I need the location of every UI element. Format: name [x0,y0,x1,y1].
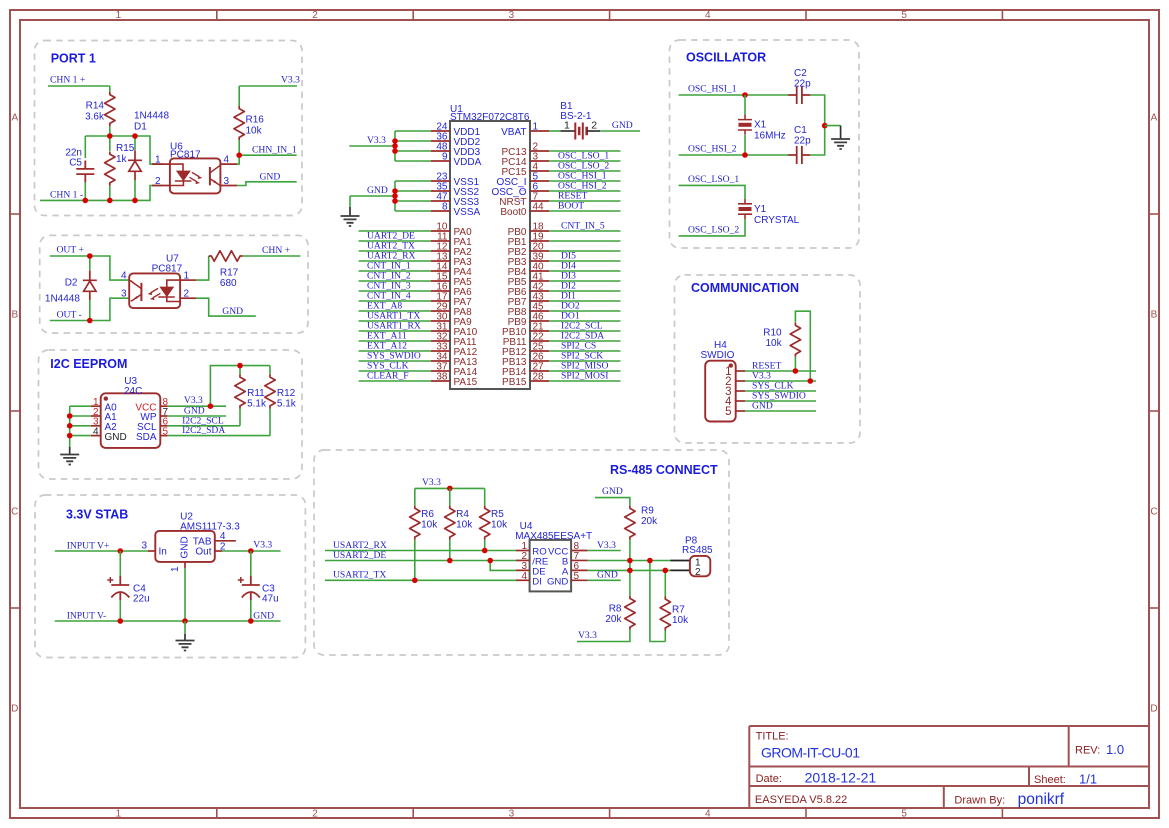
junction [248,548,254,554]
wire PB11 [549,340,621,342]
wire VDD1 [395,130,431,132]
wire C4 top [119,551,121,576]
wire PA10 [359,330,431,332]
svg-text:D: D [11,704,18,715]
svg-text:VSSA: VSSA [454,207,481,218]
wire right row 151 [549,150,621,152]
pin stub U6 pin2 [152,185,170,187]
svg-text:5.1k: 5.1k [247,398,267,409]
svg-text:EASYEDA V5.8.22: EASYEDA V5.8.22 [755,794,847,806]
pin stub U3.4 [91,435,101,437]
wire GND drop [349,196,351,207]
wire PA0 [359,230,431,232]
wire OUT- [50,298,129,320]
junction [67,413,73,419]
pin stub U1.19 [530,240,549,242]
svg-text:CHN_IN_1: CHN_IN_1 [252,144,297,155]
junction [107,198,113,204]
wire PA9 [359,320,431,322]
pin stub U1.12 [431,250,450,252]
junction [67,433,73,439]
svg-text:R9: R9 [641,506,654,517]
wire PB13 [549,360,621,362]
pin stub U1.38 [431,380,450,382]
svg-text:OUT -: OUT - [57,310,82,321]
pin stub P8.1 [670,560,690,562]
junction [627,568,633,574]
svg-text:OSC_LSO_1: OSC_LSO_1 [688,174,739,185]
svg-text:2: 2 [312,10,318,21]
resistor R7 [660,597,670,631]
svg-text:3: 3 [141,541,147,552]
pin stub U1.18 [530,230,549,232]
junction [87,253,93,259]
battery B1 BS-2-1 [561,123,601,140]
wire OSC_LSO_2 [679,219,745,236]
junction [67,423,73,429]
pin stub U1.5 [530,180,549,182]
wire D1 bottom [134,180,136,200]
svg-text:5: 5 [901,808,907,819]
pin stub U3.2 [91,415,101,417]
gnd stem I2C [69,447,71,454]
junction [87,318,93,324]
svg-text:OSC_HSI_1: OSC_HSI_1 [688,84,737,95]
pin stub U1.25 [530,350,549,352]
pin stub U4.2 [516,559,530,561]
pin stub U4.1 [516,550,530,552]
svg-text:OUT +: OUT + [57,245,84,256]
svg-text:VBAT: VBAT [501,127,526,138]
svg-text:OSCILLATOR: OSCILLATOR [686,51,766,65]
wire PB5 [549,280,621,282]
wire U3 gnd bus [69,406,71,447]
wire D1 top [134,136,136,150]
junction [392,193,398,199]
pin stub H4.5 [736,410,745,412]
junction [107,133,113,139]
junction [236,152,242,158]
wire right row 181 [549,180,621,182]
pin stub U1.37 [431,370,450,372]
wire PB10 [549,330,621,332]
svg-text:X1: X1 [754,120,767,131]
svg-text:47u: 47u [262,594,279,605]
pin stub U4.6 [571,569,588,571]
pin stub U1.24 [431,130,450,132]
svg-text:R16: R16 [246,115,265,126]
svg-text:R17: R17 [220,268,239,279]
svg-text:R11: R11 [247,388,265,399]
svg-text:R8: R8 [609,604,622,615]
gnd stem stab2 [184,634,186,640]
pin stub H4.1 [736,370,745,372]
wire PA8 [359,310,431,312]
pin stub U1.36 [431,140,450,142]
svg-text:_: _ [518,191,525,202]
wire PB14 [549,370,621,372]
wire U3 pin3 [70,425,91,427]
svg-text:INPUT V-: INPUT V- [67,610,107,621]
svg-text:CHN 1 -: CHN 1 - [50,190,83,201]
svg-text:BOOT: BOOT [558,200,584,211]
IC U3 24C [101,393,161,448]
pin stub U7 pin1 [180,279,196,281]
pin stub U1.1 [530,130,549,132]
wire R5 top [484,488,486,505]
svg-text:ponikrf: ponikrf [1018,791,1065,808]
wire C5 bottom [84,182,86,200]
wire C2 right [810,95,825,126]
junction [392,188,398,194]
wire PA6 [359,290,431,292]
svg-text:1N4448: 1N4448 [134,111,169,122]
svg-text:10k: 10k [246,126,263,137]
pin stub U1.44 [530,210,549,212]
svg-text:V3.3: V3.3 [597,540,616,551]
wire C5 top [84,136,86,158]
svg-text:10k: 10k [765,338,782,349]
wire U3 pin1 [70,405,91,407]
pin stub U1.2 [530,150,549,152]
junction [742,152,748,158]
wire X1 top [744,95,746,115]
pin stub U1.43 [530,300,549,302]
svg-text:20k: 20k [605,614,622,625]
pin stub U1.46 [530,320,549,322]
svg-text:GND: GND [180,536,191,558]
wire R16 bottom [238,140,240,155]
wire U2 gnd [184,568,186,621]
wire H4 row 4 [745,400,816,402]
pin stub U1.13 [431,260,450,262]
svg-text:GND: GND [253,610,274,621]
wire I2C2_SDA U3 [168,435,270,437]
resistor R5 [480,506,490,540]
svg-text:22p: 22p [794,79,811,90]
svg-text:A: A [11,113,18,124]
pin stub U1.14 [431,270,450,272]
svg-text:4: 4 [705,10,711,21]
capacitor C5 [76,161,94,183]
svg-text:SPI2_MOSI: SPI2_MOSI [561,370,608,381]
svg-text:C: C [11,507,18,518]
svg-text:V3.3: V3.3 [184,395,203,406]
junction [793,368,799,374]
junction [83,198,89,204]
svg-text:3: 3 [509,808,515,819]
wire right row 161 [549,160,621,162]
wire PB3 [549,260,621,262]
svg-text:PORT 1: PORT 1 [51,52,96,66]
svg-text:I2C EEPROM: I2C EEPROM [50,357,127,371]
ground stab [176,641,195,651]
junction [482,548,488,554]
svg-text:B: B [11,310,18,321]
svg-text:5: 5 [725,406,731,418]
wire R12 bottom [269,409,271,436]
wire GND U3 [168,415,226,417]
junction [647,558,653,564]
svg-text:1/1: 1/1 [1079,772,1097,787]
pin stub U1.33 [431,350,450,352]
section box COMMUNICATION [675,275,861,443]
pin stub U3.3 [91,425,101,427]
wire VSS3 [395,200,431,202]
pin stub P8.2 [670,569,690,571]
wire R6 top [414,488,416,505]
wire USART2_RX [325,550,516,552]
wire H4 row 5 [745,410,816,412]
pin stub U1.39 [530,260,549,262]
section box PORT 1 [35,41,303,216]
wire H4 row 3 [745,390,816,392]
junction [412,578,418,584]
junction [132,198,138,204]
diode D1 [128,150,142,180]
wire PA11 [359,340,431,342]
svg-text:Date:: Date: [756,773,782,785]
svg-text:PC817: PC817 [170,149,201,160]
svg-text:1N4448: 1N4448 [45,294,80,305]
svg-text:CNT_IN_5: CNT_IN_5 [561,220,605,231]
wire D2 bottom [89,300,91,321]
wire PB8 [549,310,621,312]
wire R12 top [269,366,271,375]
pin stub U1.26 [530,360,549,362]
wire rs485 pullup rail [415,487,485,489]
junction [742,92,748,98]
pin stub U1.45 [530,310,549,312]
wire right row 201 [549,200,621,202]
section box I2C EEPROM [39,350,303,479]
wire C4 bottom [119,600,121,621]
wire CHN_IN_1 [237,155,297,164]
wire R9 top [595,498,630,506]
pin stub U3.5 [160,435,167,437]
svg-text:R15: R15 [116,143,135,154]
svg-text:SWDIO: SWDIO [701,350,735,361]
svg-text:16MHz: 16MHz [754,131,786,142]
svg-text:GND: GND [260,171,281,182]
junction [808,378,814,384]
svg-text:A: A [1151,113,1158,124]
junction [132,133,138,139]
svg-text:GND: GND [602,486,623,497]
wire USART2_TX [325,579,516,581]
svg-text:1k: 1k [116,154,128,165]
svg-text:20k: 20k [641,516,658,527]
svg-text:GROM-IT-CU-01: GROM-IT-CU-01 [761,745,860,761]
svg-text:I2C2_SDA: I2C2_SDA [182,425,225,436]
wire gnd stem stab [184,621,186,634]
pin stub U1.3 [530,160,549,162]
svg-text:RS485: RS485 [682,545,713,556]
svg-text:PC817: PC817 [152,264,183,275]
svg-text:GND: GND [367,185,388,196]
ground mcu [341,216,360,226]
pin stub U2.3 [148,550,155,552]
wire VDDA [395,160,431,162]
wire PB9 [549,320,621,322]
svg-text:SDA: SDA [136,432,157,443]
wire R6 bottom [414,540,416,581]
wire CHN1- bottom [40,186,163,201]
svg-text:C2: C2 [794,68,807,79]
pin stub U1.23 [431,180,450,182]
svg-text:2018-12-21: 2018-12-21 [805,770,877,786]
pin stub U1.16 [431,290,450,292]
wire PB1 [549,240,621,242]
pin stub U1.30 [431,320,450,322]
wire R11 top [239,366,241,375]
crystal Y1 [738,199,752,219]
svg-text:INPUT V+: INPUT V+ [67,540,110,551]
wire OSC_HSI_1 [679,94,789,96]
wire R7 bottom [664,631,666,642]
svg-text:V3.3: V3.3 [253,540,272,551]
pin stub U4.4 [516,579,530,581]
wire PB15 [549,380,621,382]
wire U4 VCC [588,550,621,552]
svg-text:OSC_HSI_2: OSC_HSI_2 [688,144,737,155]
wire right row 191 [549,190,621,192]
title block [749,726,1149,808]
svg-text:R14: R14 [86,101,105,112]
svg-text:10k: 10k [672,615,689,626]
resistor R6 [410,506,420,540]
wire R14 bottom [109,126,111,136]
pin stub U1.22 [530,340,549,342]
pin stub U3.7 [160,415,167,417]
junction [248,618,254,624]
wire U3 pin2 [70,415,91,417]
resistor R17 [209,251,243,261]
wire D2 top [89,256,91,270]
svg-text:2: 2 [312,808,318,819]
svg-text:R4: R4 [456,509,469,520]
wire PB7 [549,300,621,302]
wire PA4 [359,270,431,272]
svg-text:3: 3 [509,10,515,21]
resistor R4 [445,506,455,540]
junction [118,618,124,624]
wire CHN1+ top [48,85,110,87]
svg-text:4: 4 [705,808,711,819]
pin stub U1.48 [431,150,450,152]
wire GND port1 [237,182,297,186]
diode D2 [83,270,97,300]
wire R4 bottom [449,540,451,561]
svg-text:DI: DI [532,576,542,587]
svg-text:R7: R7 [672,604,685,615]
optocoupler U7 PC817 [129,273,180,308]
pin stub U1.9 [431,160,450,162]
ground I2C [60,455,79,465]
wire I2C2_SCL U3 [168,425,240,427]
pin stub U1.31 [431,330,450,332]
pin stub U1.4 [530,170,549,172]
wire C3 top [250,551,252,576]
capacitor C3 [238,576,260,600]
junction [487,558,493,564]
wire VSS2 [395,190,431,192]
svg-text:USART2_DE: USART2_DE [333,550,386,561]
pin stub H4.2 [736,380,745,382]
svg-text:22u: 22u [133,594,150,605]
wire CHN+ [243,255,301,257]
IC U4 MAX485EESA+T [530,540,572,592]
svg-text:C1: C1 [794,125,807,136]
svg-text:R10: R10 [763,327,782,338]
crystal X1 16MHz [738,115,752,135]
wire INPUT V- [55,620,281,622]
wire R14 top lead [109,86,111,92]
wire V3.3 port1 [239,85,297,87]
svg-text:USART2_TX: USART2_TX [333,570,386,581]
junction [237,363,243,369]
wire OUT+ [50,256,129,280]
junction [392,148,398,154]
pin stub U1.21 [530,330,549,332]
svg-text:5: 5 [901,10,907,21]
wire pullup rail [210,366,270,407]
svg-text:PA15: PA15 [454,377,478,388]
wire VSS1 [395,180,431,182]
svg-text:10k: 10k [491,519,508,530]
pin stub U1.20 [530,250,549,252]
pin stub U6 pin4 [220,163,237,165]
svg-text:1: 1 [564,120,570,132]
svg-text:GND: GND [105,432,127,443]
capacitor C1 [788,146,810,164]
wire U4 GND [588,579,621,581]
svg-text:1: 1 [155,155,161,166]
junction [822,123,828,129]
MCU U1 STM32F072C8T6 [450,121,530,389]
wire GND feed [350,195,395,197]
wire R8 bottom [577,630,630,642]
wire OSC_HSI_2 [679,154,789,156]
svg-text:STM32F072C8T6: STM32F072C8T6 [450,112,530,123]
svg-text:5.1k: 5.1k [277,398,297,409]
svg-text:C: C [1150,507,1157,518]
pin stub U6 pin3 [220,185,237,187]
resistor R14 [105,92,115,126]
wire B1 GND [600,130,640,132]
wire PA12 [359,350,431,352]
pin stub U1.40 [530,270,549,272]
svg-text:3.6k: 3.6k [85,112,105,123]
wire right row 171 [549,170,621,172]
wire PA15 [359,380,431,382]
svg-text:CLEAR_F: CLEAR_F [367,370,409,381]
wire PB0 [549,230,621,232]
wire VDD3 [395,150,431,152]
wire VDD2 [395,140,431,142]
wire PA13 [359,360,431,362]
wire R5 bottom [484,540,486,551]
wire USART2_DE [325,560,516,562]
gnd stem mcu [349,207,351,216]
wire V3.3 out [222,550,281,552]
svg-text:2: 2 [591,120,597,132]
pin stub U7 pin2 [180,297,196,299]
svg-text:D: D [1150,704,1157,715]
wire GND bus [394,181,396,211]
ground osc [831,139,850,149]
svg-text:V3.3: V3.3 [422,477,441,488]
